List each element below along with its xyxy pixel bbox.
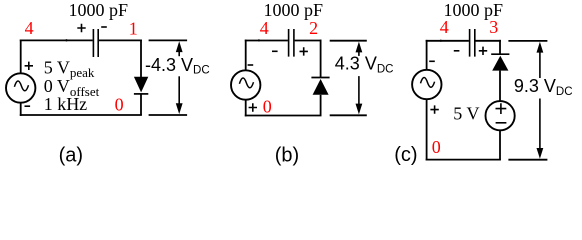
wire joint dot (b) top rail bbox=[258, 39, 260, 41]
AC source V1 (b) bbox=[231, 70, 260, 99]
wire: (a) top rail, source to capacitor bbox=[20, 39, 93, 41]
diode D1 (b), cathode up bbox=[311, 77, 329, 79]
DC source V2 (c) plus mark bbox=[496, 103, 507, 114]
measurement (c): top reference tick bbox=[508, 40, 547, 42]
wire: (b) left rail lower bbox=[245, 100, 247, 117]
wire: (a) left rail lower (source to node 0 rail) bbox=[20, 103, 22, 116]
svg-text:(b): (b) bbox=[275, 144, 299, 166]
wire: (a) right rail upper (node 1 to diode) bbox=[140, 40, 142, 78]
wire: (c) left rail lower bbox=[426, 99, 428, 160]
svg-text:4: 4 bbox=[260, 18, 269, 38]
svg-text:0: 0 bbox=[115, 95, 124, 115]
capacitor C1 (b) 1000 pF plates bbox=[289, 29, 294, 57]
svg-text:1: 1 bbox=[129, 19, 138, 39]
wire: (a) left rail upper (node 4 to source) bbox=[20, 40, 22, 74]
measurement (b): up arrow bbox=[356, 42, 363, 53]
wire: (c) DC source to bottom rail bbox=[499, 130, 501, 159]
wire: (c) left rail upper bbox=[426, 40, 428, 70]
diode D1 (c), cathode up bbox=[491, 53, 509, 55]
wire: (b) left rail upper bbox=[245, 40, 247, 71]
measurement (b): top reference tick bbox=[330, 40, 367, 42]
measurement (a): up arrow bbox=[176, 41, 183, 52]
AC source V1 (b) plus mark bbox=[249, 103, 257, 111]
capacitor C1 (c) plus mark bbox=[479, 47, 487, 55]
measurement (c): down arrow bbox=[539, 99, 541, 151]
AC source V1 (b) minus mark bbox=[248, 64, 254, 66]
measurement (b): bottom reference tick bbox=[330, 114, 367, 116]
svg-text:4: 4 bbox=[25, 18, 34, 38]
DC source V2 (c) 5 V bbox=[486, 101, 515, 130]
measurement (b): down arrow bbox=[358, 76, 360, 105]
capacitor C1 (a) 1000 pF plates bbox=[93, 29, 98, 57]
wire: (c) top rail, capacitor to node 3 corner bbox=[476, 40, 501, 42]
DC source V2 (c) minus mark bbox=[496, 122, 507, 124]
svg-text:4: 4 bbox=[440, 17, 449, 37]
svg-text:1000 pF: 1000 pF bbox=[68, 0, 128, 20]
measurement (a): down arrow bbox=[178, 76, 180, 105]
capacitor C1 (b) minus mark bbox=[272, 50, 278, 52]
wire: (b) right rail upper (node 2 to diode cathode) bbox=[320, 40, 322, 78]
AC source V1 (c) minus mark bbox=[429, 60, 435, 62]
AC source V1 (c) plus mark bbox=[430, 105, 438, 113]
wire: (b) top rail, source to capacitor bbox=[245, 40, 288, 42]
capacitor C1 (a) plus mark bbox=[77, 24, 85, 32]
wire joint dot (c) top rail bbox=[440, 40, 442, 42]
wire: (c) diode to DC source bbox=[499, 71, 501, 102]
capacitor C1 (a) minus mark bbox=[101, 26, 107, 28]
measurement (a): bottom reference tick bbox=[149, 114, 188, 116]
capacitor C1 (b) plus mark bbox=[300, 47, 308, 55]
wire: (c) top rail, source to capacitor bbox=[426, 40, 469, 42]
svg-text:2: 2 bbox=[309, 18, 318, 38]
svg-text:0: 0 bbox=[432, 137, 441, 157]
wire: (a) right rail lower (diode to bottom rail) bbox=[140, 94, 142, 115]
wire: (b) top rail, capacitor to node 2 corner bbox=[295, 40, 322, 42]
wire: (a) top rail, capacitor to node 1 corner bbox=[99, 39, 142, 41]
capacitor C1 (c) 1000 pF plates bbox=[470, 29, 475, 57]
svg-text:0: 0 bbox=[263, 97, 272, 117]
measurement (c): up arrow bbox=[537, 42, 544, 53]
wire joint dot (a) top rail bbox=[65, 39, 67, 41]
svg-text:(c): (c) bbox=[394, 144, 417, 166]
AC source V1 (a) bbox=[6, 73, 35, 102]
capacitor C1 (c) minus mark bbox=[454, 50, 460, 52]
wire: (a) bottom rail bbox=[20, 114, 142, 116]
wire: (c) bottom rail bbox=[426, 159, 501, 161]
wire: (b) right rail lower (diode to bottom rail) bbox=[320, 95, 322, 116]
AC source V1 (c) bbox=[412, 70, 441, 99]
measurement (c): bottom reference tick bbox=[508, 159, 547, 161]
svg-text:(a): (a) bbox=[59, 144, 83, 166]
wire: (b) bottom rail bbox=[245, 115, 322, 117]
svg-text:5 V: 5 V bbox=[453, 104, 479, 124]
AC source V1 (a) plus mark bbox=[25, 62, 33, 70]
svg-text:3: 3 bbox=[489, 17, 498, 37]
measurement (a): top reference tick bbox=[149, 39, 188, 41]
svg-text:1 kHz: 1 kHz bbox=[44, 94, 87, 114]
wire: (c) right rail upper (node 3 to diode cathode) bbox=[499, 40, 501, 54]
AC source V1 (a) minus mark bbox=[25, 105, 31, 107]
diode D1 (a), cathode down bbox=[134, 77, 148, 93]
